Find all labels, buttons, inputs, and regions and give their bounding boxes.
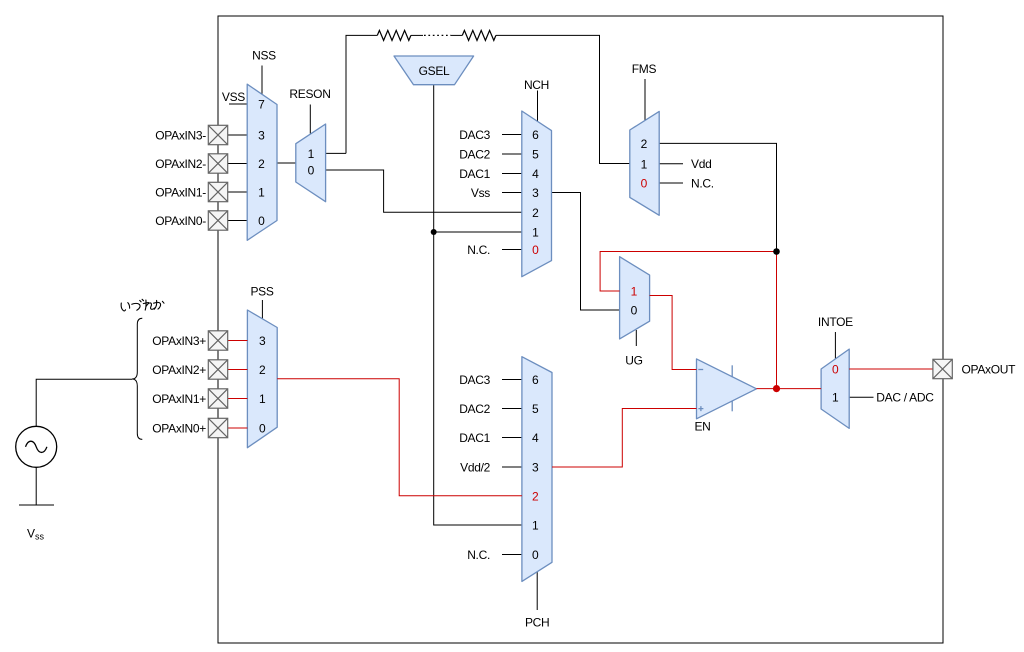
svg-text:6: 6 xyxy=(532,373,539,387)
svg-text:OPAxIN1+: OPAxIN1+ xyxy=(152,392,206,406)
svg-text:UG: UG xyxy=(625,354,642,368)
NCH mux port numbers xyxy=(532,128,539,257)
wire: PCH output to op-amp non-inverting input xyxy=(552,409,697,468)
wire: FMS stub 1 to Vdd xyxy=(659,163,683,165)
label stub PSS xyxy=(261,300,263,319)
wire: FMS output 2 down to junction node xyxy=(659,143,776,251)
svg-text:OPAxIN3-: OPAxIN3- xyxy=(155,129,206,143)
pin OPAxIN0- xyxy=(208,211,227,230)
PINS xyxy=(208,125,952,437)
svg-text:OPAxIN0+: OPAxIN0+ xyxy=(152,422,206,436)
svg-text:7: 7 xyxy=(258,98,265,112)
label stub INTOE xyxy=(834,332,836,359)
wire: pin OPAxIN0- to NSS input 0 xyxy=(228,220,248,222)
svg-text:3: 3 xyxy=(532,186,539,200)
pin OPAxIN1+ xyxy=(208,389,227,408)
wire: feedback loop right vertical down to FMS input xyxy=(496,35,630,163)
op-amp EN xyxy=(697,359,757,419)
svg-text:5: 5 xyxy=(532,148,539,162)
svg-text:EN: EN xyxy=(694,420,710,434)
svg-text:PCH: PCH xyxy=(525,616,549,630)
svg-text:4: 4 xyxy=(532,431,539,445)
op-amp enable tick top xyxy=(731,365,733,377)
svg-text:1: 1 xyxy=(631,285,638,299)
wire: RESON output 0 to NCH input 2 xyxy=(326,170,522,212)
svg-text:1: 1 xyxy=(832,391,839,405)
svg-text:PSS: PSS xyxy=(250,285,273,299)
svg-text:DAC2: DAC2 xyxy=(459,148,490,162)
wire: junction node down to op-amp output node xyxy=(776,252,778,389)
pin OPAxIN2- xyxy=(208,154,227,173)
wire: pin OPAxIN1+ to PSS input 1 xyxy=(228,398,248,400)
wire: pin OPAxIN0+ to PSS input 0 xyxy=(228,427,248,429)
mux UG xyxy=(620,257,650,339)
svg-text:2: 2 xyxy=(258,157,265,171)
wire: pin OPAxIN3- to NSS input 3 xyxy=(228,134,248,136)
resistor R2 xyxy=(462,30,496,40)
svg-text:1: 1 xyxy=(308,147,315,161)
wire: DAC1 stub to NCH 4 xyxy=(502,173,522,175)
wire: pin OPAxIN2+ to PSS input 2 xyxy=(228,369,248,371)
svg-text:Vdd: Vdd xyxy=(691,157,711,171)
mux NSS xyxy=(247,84,277,240)
pin OPAxIN3+ xyxy=(208,331,227,350)
svg-text:2: 2 xyxy=(641,137,648,151)
wire: junction node to UG input 1 xyxy=(600,252,776,292)
wire: PSS output to PCH input 2 xyxy=(277,379,522,496)
WIRES_RED xyxy=(228,252,933,496)
wire: AC source to selector brace xyxy=(36,379,132,426)
svg-text:0: 0 xyxy=(532,243,539,257)
wire: pin OPAxIN3+ to PSS input 3 xyxy=(228,340,248,342)
svg-text:DAC3: DAC3 xyxy=(459,373,490,387)
svg-text:DAC2: DAC2 xyxy=(459,402,490,416)
mux PSS xyxy=(247,310,277,448)
SHAPES xyxy=(247,56,849,581)
svg-text:NSS: NSS xyxy=(252,49,276,63)
pin OPAxIN3- xyxy=(208,125,227,144)
wire: dotted chain to R2 xyxy=(451,34,462,36)
svg-text:6: 6 xyxy=(532,128,539,142)
wire: VSS stub to NSS input 7 xyxy=(229,103,247,105)
wire: feedback loop left vertical to RESON output 1 xyxy=(346,35,377,153)
svg-text:1: 1 xyxy=(532,519,539,533)
svg-text:N.C.: N.C. xyxy=(691,177,714,191)
label stub RESON xyxy=(309,105,311,134)
svg-text:DAC / ADC: DAC / ADC xyxy=(876,391,934,405)
svg-text:1: 1 xyxy=(532,226,539,240)
wire: INTOE output 0 to pin OPAxOUT xyxy=(849,368,933,370)
op-amp enable tick bottom xyxy=(731,401,733,412)
junction node: FMS output / feedback net xyxy=(773,248,780,255)
svg-text:DAC1: DAC1 xyxy=(459,167,490,181)
svg-text:OPAxIN0-: OPAxIN0- xyxy=(155,214,206,228)
PSS mux port numbers xyxy=(259,334,266,436)
svg-text:1: 1 xyxy=(259,392,266,406)
mux PCH xyxy=(522,357,552,582)
wire: NSS output to RESON input xyxy=(277,162,296,164)
svg-text:OPAxIN1-: OPAxIN1- xyxy=(155,186,206,200)
wire: UG output to op-amp inverting input xyxy=(650,296,697,370)
pin OPAxIN1- xyxy=(208,182,227,201)
wire: DAC1 stub to PCH 4 xyxy=(502,437,522,439)
svg-text:0: 0 xyxy=(532,548,539,562)
junction node: op-amp output net xyxy=(773,385,780,392)
ground Vss bar xyxy=(19,504,54,506)
svg-text:3: 3 xyxy=(532,461,539,475)
svg-text:0: 0 xyxy=(258,214,265,228)
wire: Vdd/2 stub to PCH 3 xyxy=(502,466,522,468)
wire: op-amp output to INTOE input xyxy=(757,388,822,390)
svg-text:2: 2 xyxy=(259,363,266,377)
label stub NSS xyxy=(261,66,263,96)
svg-text:2: 2 xyxy=(532,206,539,220)
wire: RESON output 1 up to feedback loop xyxy=(326,152,346,154)
label stub UG xyxy=(635,330,637,346)
svg-text:N.C.: N.C. xyxy=(467,243,490,257)
svg-text:4: 4 xyxy=(532,167,539,181)
svg-text:0: 0 xyxy=(308,164,315,178)
wire: AC source to ground xyxy=(35,467,37,505)
wire: N.C. stub to NCH 0 xyxy=(502,249,522,251)
selector brace いづれか xyxy=(132,318,142,439)
wire: pin OPAxIN2- to NSS input 2 xyxy=(228,163,248,165)
PCH mux port numbers xyxy=(532,373,539,562)
RESON mux port numbers xyxy=(308,147,315,178)
junction node: GSEL line to NCH input 1 xyxy=(431,229,437,235)
resistor R1 xyxy=(377,30,411,40)
svg-text:0: 0 xyxy=(631,304,638,318)
chip boundary xyxy=(218,16,943,643)
svg-text:RESON: RESON xyxy=(289,87,330,101)
wire: FMS stub 0 to N.C. xyxy=(659,182,683,184)
resistor chain dotted continuation xyxy=(424,34,451,36)
WIRES_BLACK xyxy=(19,30,874,610)
label stub NCH xyxy=(537,91,539,123)
pin OPAxOUT xyxy=(933,359,952,378)
NSS mux port numbers xyxy=(258,98,265,229)
wire: N.C. stub to PCH 0 xyxy=(502,554,522,556)
wire: junction to NCH input 1 xyxy=(434,231,522,233)
svg-text:0: 0 xyxy=(259,422,266,436)
svg-text:OPAxIN3+: OPAxIN3+ xyxy=(152,334,206,348)
svg-text:3: 3 xyxy=(259,334,266,348)
wire: DAC2 stub to PCH 5 xyxy=(502,408,522,410)
svg-text:Vdd/2: Vdd/2 xyxy=(460,461,490,475)
mux NCH xyxy=(522,111,552,277)
wire: pin OPAxIN1- to NSS input 1 xyxy=(228,191,248,193)
svg-text:GSEL: GSEL xyxy=(419,64,450,78)
svg-text:VSS: VSS xyxy=(222,90,245,104)
pin OPAxIN0+ xyxy=(208,418,227,437)
svg-text:OPAxIN2+: OPAxIN2+ xyxy=(152,363,206,377)
svg-text:OPAxOUT: OPAxOUT xyxy=(962,363,1017,377)
AC source V1 xyxy=(16,426,57,467)
wire: Vss stub to NCH 3 xyxy=(502,192,522,194)
svg-text:OPAxIN2-: OPAxIN2- xyxy=(155,157,206,171)
svg-text:DAC3: DAC3 xyxy=(459,128,490,142)
gain selector GSEL xyxy=(394,56,474,85)
svg-text:5: 5 xyxy=(532,402,539,416)
svg-text:NCH: NCH xyxy=(524,78,549,92)
svg-text:FMS: FMS xyxy=(632,62,657,76)
op-amp inverting input marker xyxy=(698,369,703,371)
svg-text:0: 0 xyxy=(641,177,648,191)
FMS mux port numbers xyxy=(641,137,648,191)
svg-text:Vss: Vss xyxy=(471,186,490,200)
wire: INTOE stub 1 to DAC/ADC xyxy=(849,396,873,398)
pin OPAxIN2+ xyxy=(208,360,227,379)
wire: GSEL output down to PCH input 1 xyxy=(434,85,522,525)
wire: DAC2 stub to NCH 5 xyxy=(502,153,522,155)
svg-text:2: 2 xyxy=(532,490,539,504)
mux RESON xyxy=(296,124,326,202)
op-amp non-inverting input marker xyxy=(698,406,703,411)
label stub FMS xyxy=(644,79,646,121)
svg-text:3: 3 xyxy=(258,129,265,143)
wire: DAC3 stub to PCH 6 xyxy=(502,379,522,381)
svg-text:1: 1 xyxy=(641,157,648,171)
label いづれか (any one of) xyxy=(121,299,164,311)
svg-text:0: 0 xyxy=(832,363,839,377)
UG mux port numbers xyxy=(631,285,638,318)
mux INTOE xyxy=(821,349,849,428)
INTOE mux port numbers xyxy=(832,363,839,405)
svg-text:DAC1: DAC1 xyxy=(459,431,490,445)
wire: NCH output to UG input 0 xyxy=(552,193,620,311)
label stub PCH xyxy=(536,570,538,611)
svg-text:N.C.: N.C. xyxy=(467,548,490,562)
svg-text:INTOE: INTOE xyxy=(818,315,853,329)
wire: DAC3 stub to NCH 6 xyxy=(502,134,522,136)
wire: R1 to dotted chain xyxy=(411,34,423,36)
svg-text:1: 1 xyxy=(258,186,265,200)
mux FMS xyxy=(630,111,659,215)
